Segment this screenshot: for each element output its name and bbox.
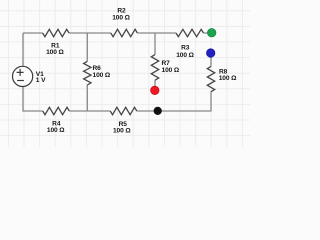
svg-text:100 Ω: 100 Ω xyxy=(113,128,131,135)
svg-text:100 Ω: 100 Ω xyxy=(93,72,111,79)
wire top rail R2-R3 segment xyxy=(137,32,176,34)
svg-text:R3: R3 xyxy=(181,45,190,52)
wire bottom rail R4-R5 segment xyxy=(69,110,110,112)
green terminal node xyxy=(208,29,216,37)
svg-text:100 Ω: 100 Ω xyxy=(46,49,64,56)
black junction node xyxy=(154,107,162,115)
resistor R8 xyxy=(207,66,237,91)
svg-text:R6: R6 xyxy=(93,65,102,72)
wire left vertical top (V1 to top rail) xyxy=(22,33,24,66)
svg-text:100 Ω: 100 Ω xyxy=(219,75,237,82)
resistor R4 xyxy=(43,107,70,134)
wire bottom rail R5 to corner under R8 xyxy=(137,92,211,111)
wire R3 to green terminal xyxy=(204,32,208,34)
red terminal node xyxy=(151,86,159,94)
svg-text:100 Ω: 100 Ω xyxy=(112,15,130,22)
svg-text:100 Ω: 100 Ω xyxy=(47,127,65,134)
wire R7 bottom lead to red terminal xyxy=(154,80,156,86)
wire top rail R1-R2 segment xyxy=(69,32,111,34)
svg-text:100 Ω: 100 Ω xyxy=(176,52,194,59)
blue terminal node xyxy=(207,49,215,57)
wire R7 top lead / junction drop xyxy=(154,33,156,55)
resistor R5 xyxy=(110,107,137,134)
wire top rail left segment xyxy=(23,32,43,34)
svg-text:1 V: 1 V xyxy=(36,77,46,84)
resistor R3 xyxy=(176,29,204,59)
resistor R2 xyxy=(111,7,138,36)
voltage source V1 xyxy=(13,66,47,86)
wire blue terminal stem to R8 xyxy=(210,57,212,66)
wire R6 bottom lead xyxy=(86,85,88,111)
svg-text:100 Ω: 100 Ω xyxy=(162,67,180,74)
resistor R7 xyxy=(151,55,180,81)
svg-text:R2: R2 xyxy=(117,7,126,14)
wire R6 top lead / junction drop xyxy=(86,33,88,61)
resistor R6 xyxy=(84,61,111,85)
wire left vertical bottom (V1 to bottom rail) xyxy=(23,87,43,112)
svg-text:R7: R7 xyxy=(162,60,171,67)
resistor R1 xyxy=(43,29,69,56)
